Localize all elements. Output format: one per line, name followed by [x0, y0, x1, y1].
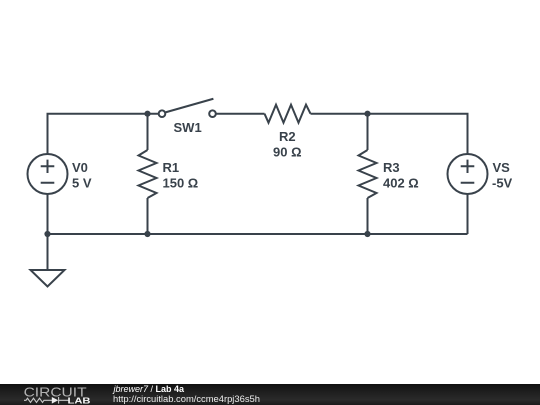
footer credit line [114, 385, 185, 394]
svg-text:5 V: 5 V [72, 176, 92, 191]
svg-text:90 Ω: 90 Ω [273, 145, 302, 160]
wire: node B to VS top [368, 114, 468, 154]
svg-text:R1: R1 [163, 160, 180, 175]
svg-text:VS: VS [493, 160, 511, 175]
wire: R2 to node B [311, 113, 368, 115]
svg-text:-5V: -5V [492, 176, 513, 191]
footer url line [113, 394, 260, 403]
svg-text:150 Ω: 150 Ω [163, 176, 199, 191]
node: ground junction [44, 231, 50, 237]
node: R2/R3 junction [364, 111, 370, 117]
switch SW1 [159, 99, 216, 117]
ground [31, 270, 65, 287]
resistor R1 (vertical zigzag) [139, 150, 157, 198]
node: switch/R1 junction [144, 111, 150, 117]
svg-text:R3: R3 [383, 160, 400, 175]
wire: switch output to R2 [217, 113, 265, 115]
wire: R1 top lead [147, 114, 149, 150]
wire: R3 top lead [367, 114, 369, 150]
wire: VS bottom lead [467, 194, 469, 234]
wire: ground stem [47, 234, 49, 270]
wire: top-left vertical + horizontal to switch junction [48, 114, 159, 154]
voltage source VS [448, 154, 488, 194]
resistor R2 (horizontal zigzag) [265, 105, 311, 123]
voltage source V0 [28, 154, 68, 194]
svg-text:LAB: LAB [68, 396, 91, 405]
svg-text:V0: V0 [72, 160, 88, 175]
wire: bottom rail [48, 233, 468, 235]
wire: R1 bottom lead [147, 198, 149, 234]
node: R1 bottom junction [144, 231, 150, 237]
footer bar [0, 384, 540, 405]
svg-text:402 Ω: 402 Ω [383, 176, 419, 191]
CircuitLab logo [20, 384, 105, 405]
wire: V0 bottom lead [47, 194, 49, 234]
svg-text:R2: R2 [279, 129, 296, 144]
resistor R3 (vertical zigzag) [359, 150, 377, 198]
wire: R3 bottom lead [367, 198, 369, 234]
node: R3 bottom junction [364, 231, 370, 237]
svg-text:SW1: SW1 [174, 120, 202, 135]
